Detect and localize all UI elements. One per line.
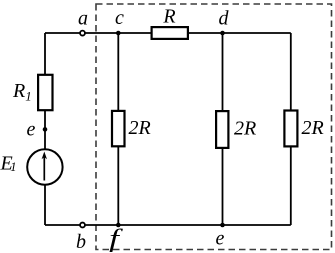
value label 2R left (129, 117, 151, 139)
svg-text:R1: R1 (12, 80, 32, 104)
label node b (76, 231, 86, 253)
wire: branch c-f (117, 33, 119, 225)
node e junction bottom (220, 223, 225, 228)
svg-text:E1: E1 (0, 153, 16, 175)
svg-text:2R: 2R (302, 117, 324, 139)
resistor R1 (38, 75, 52, 110)
resistor 2R left (112, 111, 125, 146)
wire: right branch (290, 33, 292, 225)
label node f (109, 224, 123, 252)
label node c (115, 7, 124, 29)
node c junction (116, 31, 121, 36)
label node e bottom (216, 228, 225, 250)
value label R1 (12, 80, 32, 104)
svg-text:b: b (76, 231, 86, 253)
wire: left source branch (44, 33, 46, 225)
voltage source E1 (27, 149, 62, 184)
terminal a (80, 31, 85, 36)
node d junction (220, 31, 225, 36)
svg-text:f: f (109, 224, 123, 252)
terminal b (80, 223, 85, 228)
value label R (top resistor) (162, 5, 175, 27)
svg-text:2R: 2R (234, 118, 256, 140)
resistor 2R middle (216, 111, 228, 148)
wire: bottom conductor b-f-e (45, 224, 291, 226)
resistor 2R right (284, 111, 297, 147)
svg-text:e: e (27, 118, 36, 140)
value label 2R right (302, 117, 324, 139)
svg-text:e: e (216, 228, 225, 250)
node f junction (116, 223, 121, 228)
dashed boundary box of resistive network (96, 4, 332, 250)
resistor R (152, 27, 188, 39)
label node e on source branch (27, 118, 36, 140)
label node a (78, 7, 88, 29)
wire: top conductor a-c-R-d to right corner (45, 32, 291, 34)
svg-text:c: c (115, 7, 124, 29)
wire: branch d-e (222, 33, 224, 225)
svg-text:R: R (162, 5, 175, 27)
svg-text:2R: 2R (129, 117, 151, 139)
node e junction on source branch (43, 127, 48, 132)
value label E1 (0, 153, 16, 175)
label node d (219, 7, 230, 29)
value label 2R middle (234, 118, 256, 140)
svg-text:d: d (219, 7, 230, 29)
svg-text:a: a (78, 7, 88, 29)
